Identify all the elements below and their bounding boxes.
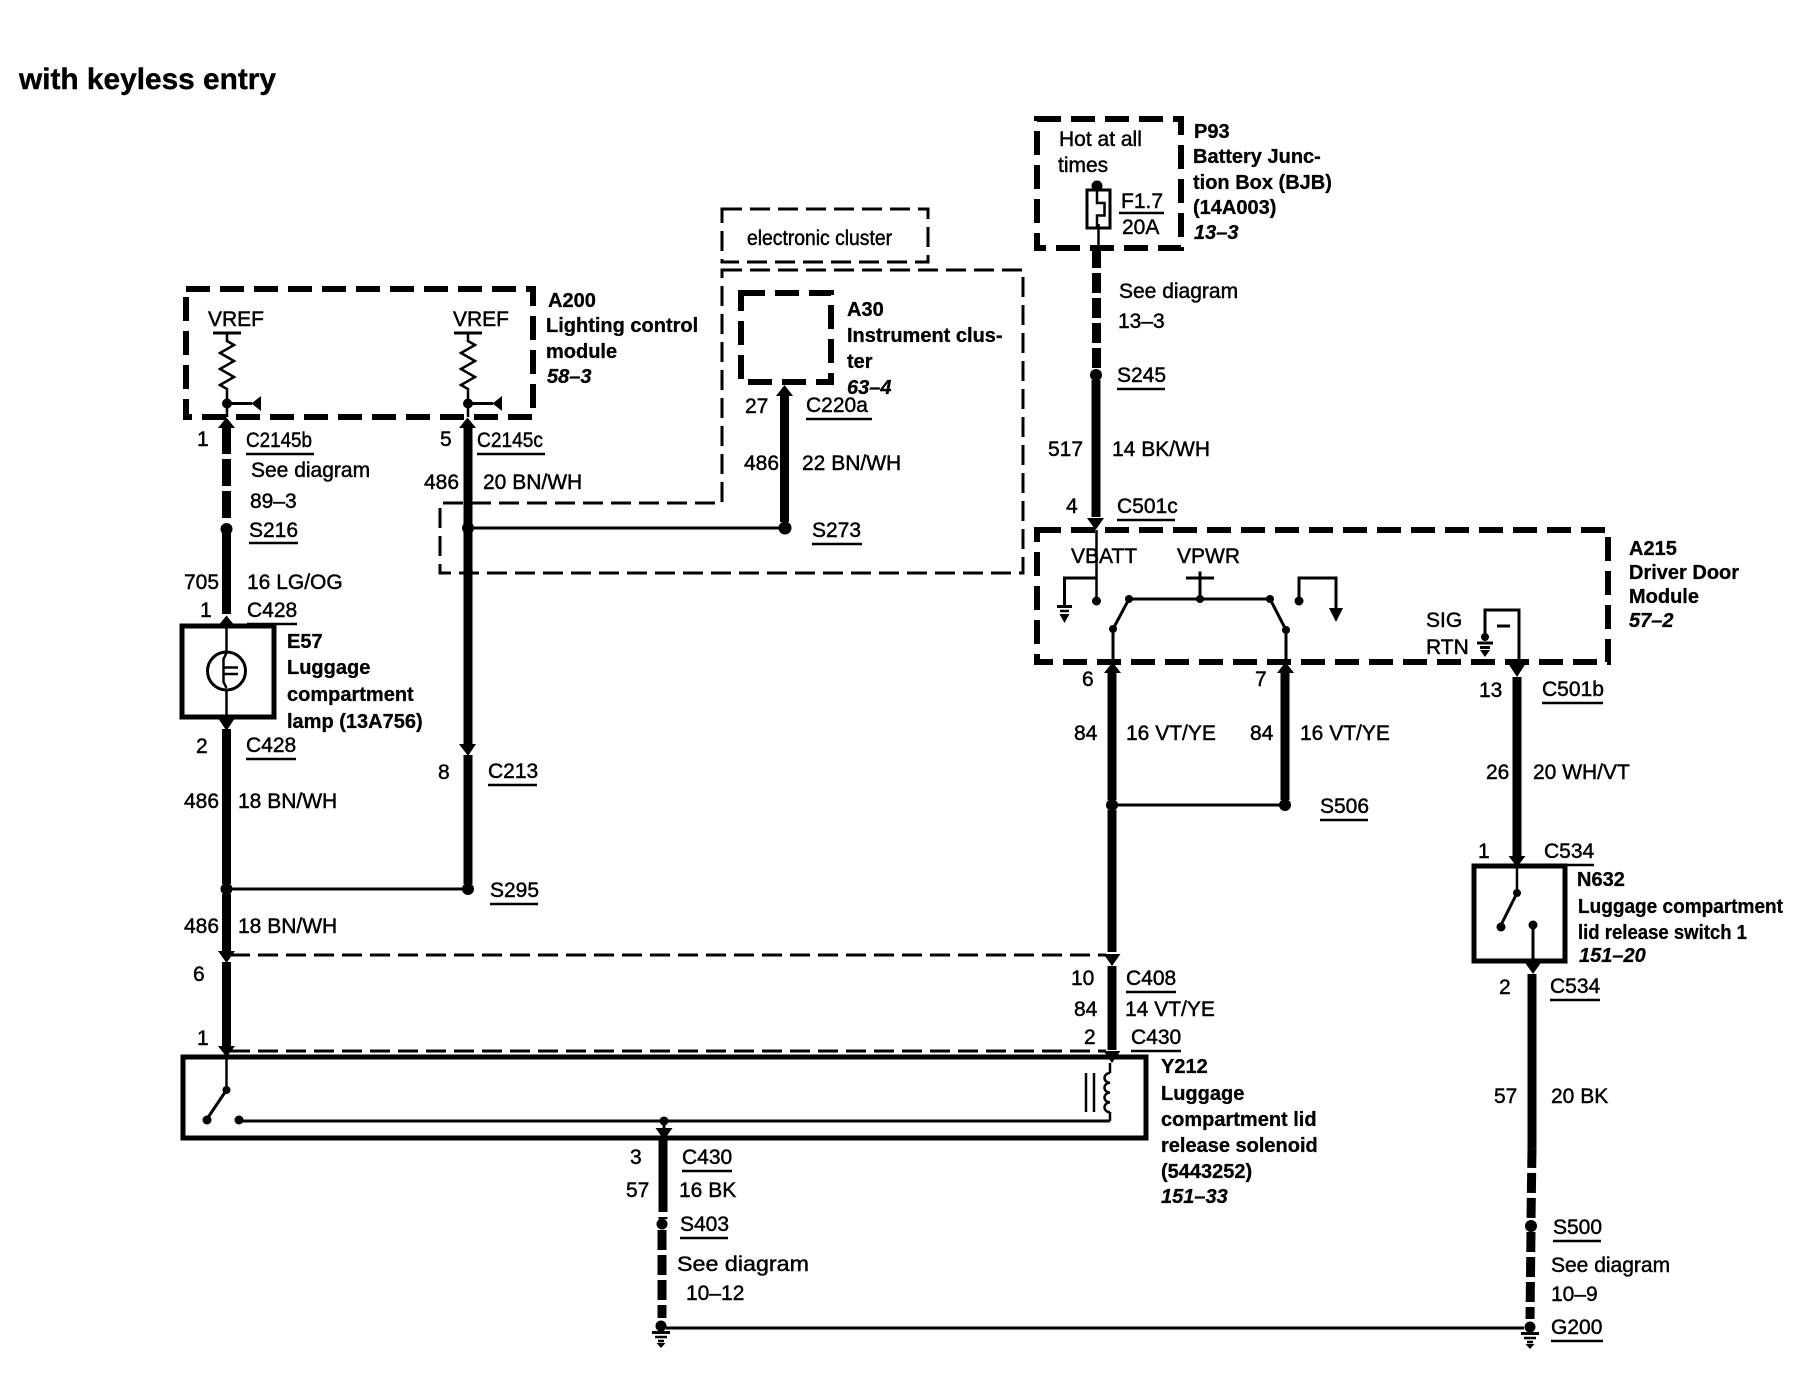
svg-text:C408: C408 <box>1126 967 1176 990</box>
svg-text:7: 7 <box>1255 668 1267 691</box>
svg-text:compartment: compartment <box>287 684 414 706</box>
svg-text:2: 2 <box>196 735 208 758</box>
svg-text:3: 3 <box>630 1146 642 1169</box>
coil Y212 solenoid winding <box>1086 1063 1110 1121</box>
svg-text:705: 705 <box>184 571 219 594</box>
svg-text:E57: E57 <box>287 631 323 653</box>
junction dot S506 left <box>1106 799 1118 811</box>
svg-text:C220a: C220a <box>806 394 868 417</box>
splice S273 <box>779 522 792 535</box>
svg-text:10: 10 <box>1071 967 1094 990</box>
wire A215 internal bus <box>1109 595 1290 660</box>
svg-text:517: 517 <box>1048 438 1083 461</box>
svg-text:151–20: 151–20 <box>1579 945 1646 967</box>
wire C213 to S295 <box>464 755 473 884</box>
svg-text:84: 84 <box>1074 998 1098 1021</box>
symbol SIG RTN <box>1426 609 1519 661</box>
label F1.7 20A <box>1119 190 1164 239</box>
note see diagram 89-3 <box>250 459 370 513</box>
svg-text:10–9: 10–9 <box>1551 1283 1598 1306</box>
svg-text:A200: A200 <box>548 290 596 312</box>
wire 705 16 LG/OG <box>222 533 231 614</box>
resistor R-VREF2 internal pullup <box>454 333 482 399</box>
connector Y212 pin 3 arrow <box>656 1121 673 1140</box>
svg-text:20A: 20A <box>1122 216 1159 239</box>
svg-text:See diagram: See diagram <box>251 459 370 482</box>
svg-text:16 LG/OG: 16 LG/OG <box>247 571 343 594</box>
svg-text:58–3: 58–3 <box>547 366 592 388</box>
svg-text:See diagram: See diagram <box>1551 1254 1670 1277</box>
svg-text:F1.7: F1.7 <box>1121 190 1163 213</box>
wire 486 20 BN/WH <box>464 427 473 744</box>
svg-text:S245: S245 <box>1117 364 1166 387</box>
svg-text:release solenoid: release solenoid <box>1161 1135 1318 1157</box>
svg-text:2: 2 <box>1084 1026 1096 1049</box>
svg-text:compartment lid: compartment lid <box>1161 1109 1317 1131</box>
svg-text:See diagram: See diagram <box>677 1253 809 1276</box>
svg-text:VBATT: VBATT <box>1071 545 1137 568</box>
svg-text:with keyless entry: with keyless entry <box>18 63 276 96</box>
svg-text:VREF: VREF <box>453 308 509 331</box>
symbol VBATT internal tie <box>1057 578 1101 623</box>
connector A215 pin 6 arrow <box>1104 662 1121 673</box>
wire C501c internal <box>1095 530 1098 598</box>
wire 26 20 WH/VT pin 13 <box>1513 677 1522 857</box>
svg-text:S216: S216 <box>249 519 298 542</box>
connector C2145c pin 5 arrow <box>459 418 476 429</box>
boundary instrument cluster assembly (dashed polygon) <box>440 270 1023 573</box>
svg-text:module: module <box>546 341 617 363</box>
svg-text:VREF: VREF <box>208 308 264 331</box>
svg-text:C2145c: C2145c <box>477 429 543 452</box>
connector C534 pin 1 arrow <box>1509 856 1526 867</box>
resistor R-VREF1 internal pullup <box>213 333 241 399</box>
wire 486 18 BN/WH lower <box>222 894 231 952</box>
junction dot Y212 pin 3 <box>660 1117 669 1126</box>
svg-text:57–2: 57–2 <box>1629 610 1674 632</box>
svg-text:S295: S295 <box>490 879 539 902</box>
label A200 <box>546 290 698 388</box>
splice S500 <box>1525 1220 1537 1232</box>
svg-text:C428: C428 <box>247 599 297 622</box>
svg-text:C430: C430 <box>1131 1026 1181 1049</box>
connector line C430 (dashed) <box>230 1050 1106 1053</box>
module A200 Lighting control module (dashed box) <box>186 289 533 417</box>
box electronic cluster (dashed) <box>722 209 928 262</box>
svg-text:ter: ter <box>847 351 873 373</box>
svg-text:22 BN/WH: 22 BN/WH <box>802 452 901 475</box>
svg-text:13–3: 13–3 <box>1118 310 1165 333</box>
svg-text:1: 1 <box>200 599 212 622</box>
label G200 <box>1551 1316 1603 1341</box>
symbol VPWR internal tap <box>1186 572 1214 604</box>
junction dot A200 right <box>463 399 473 409</box>
splice S295 junction dot left <box>221 883 233 895</box>
svg-text:57: 57 <box>1494 1085 1517 1108</box>
svg-text:20 BK: 20 BK <box>1551 1085 1608 1108</box>
connector C213 pin 8 arrow <box>459 744 476 756</box>
svg-text:lid release switch 1: lid release switch 1 <box>1578 922 1747 944</box>
svg-text:Luggage: Luggage <box>1161 1083 1244 1105</box>
svg-text:P93: P93 <box>1194 121 1230 143</box>
svg-text:8: 8 <box>438 761 450 784</box>
svg-text:26: 26 <box>1486 761 1509 784</box>
junction dot on wire 486 <box>462 522 474 534</box>
svg-text:1: 1 <box>1478 840 1490 863</box>
connector C501b label <box>1542 678 1604 703</box>
svg-text:486: 486 <box>744 452 779 475</box>
connector pin 6 arrow at C430 line <box>218 951 235 963</box>
connector C501c pin 4 arrow <box>1087 518 1104 530</box>
connector C428 pin 2 arrow <box>218 718 235 731</box>
connector C2145b pin 1 arrow <box>218 418 235 429</box>
switch Y212 internal <box>203 1057 244 1125</box>
svg-text:13–3: 13–3 <box>1194 222 1239 244</box>
svg-text:Lighting control: Lighting control <box>546 315 698 337</box>
label hot at all times <box>1058 128 1142 177</box>
svg-text:18 BN/WH: 18 BN/WH <box>238 790 337 813</box>
svg-text:See diagram: See diagram <box>1119 280 1238 303</box>
wire 84 14 VT/YE <box>1108 966 1117 1050</box>
junction dot A200 left <box>222 399 232 409</box>
module A30 instrument cluster (inner dashed box) <box>741 293 831 382</box>
svg-text:C534: C534 <box>1550 975 1601 998</box>
svg-text:486: 486 <box>184 790 219 813</box>
svg-text:14 VT/YE: 14 VT/YE <box>1125 998 1215 1021</box>
svg-text:10–12: 10–12 <box>686 1282 744 1305</box>
svg-text:C428: C428 <box>246 734 296 757</box>
svg-text:84: 84 <box>1250 722 1274 745</box>
svg-text:(5443252): (5443252) <box>1161 1161 1252 1183</box>
svg-text:4: 4 <box>1066 495 1078 518</box>
connector C2145b label <box>246 429 314 454</box>
svg-text:84: 84 <box>1074 722 1098 745</box>
svg-text:S273: S273 <box>812 519 861 542</box>
connector line C408 (dashed) <box>230 954 1106 957</box>
connector C428 pin 1 arrow <box>218 616 235 627</box>
svg-text:Battery Junc-: Battery Junc- <box>1193 146 1321 168</box>
svg-text:C430: C430 <box>682 1146 732 1169</box>
svg-text:18 BN/WH: 18 BN/WH <box>238 915 337 938</box>
wire S506 to C408 <box>1108 810 1117 952</box>
note see diagram 10-12 <box>677 1253 809 1305</box>
splice S245 <box>1090 369 1102 381</box>
connector C430 pin 2 arrow <box>1104 1051 1121 1063</box>
svg-text:57: 57 <box>626 1179 649 1202</box>
symbol internal tie right <box>1295 578 1344 622</box>
wire A200 right internal to box edge <box>467 403 470 417</box>
wire Y212 internal horizontal <box>239 1120 1110 1123</box>
wire 57 20 BK <box>1528 974 1537 1148</box>
svg-text:A215: A215 <box>1629 538 1677 560</box>
box P93 battery junction box (dashed) <box>1037 119 1181 248</box>
svg-text:Luggage compartment: Luggage compartment <box>1578 896 1783 918</box>
svg-text:14 BK/WH: 14 BK/WH <box>1112 438 1210 461</box>
internal arrow A200 left <box>231 396 261 411</box>
svg-text:C501b: C501b <box>1542 678 1604 701</box>
wire 486 22 BN/WH <box>780 394 789 522</box>
label Y212 <box>1161 1056 1318 1208</box>
svg-text:(14A003): (14A003) <box>1193 197 1276 219</box>
label N632 <box>1577 869 1783 967</box>
svg-text:Driver Door: Driver Door <box>1629 562 1739 584</box>
svg-text:151–33: 151–33 <box>1161 1186 1228 1208</box>
module A215 driver door module (dashed box) <box>1037 530 1608 662</box>
svg-text:20 WH/VT: 20 WH/VT <box>1533 761 1630 784</box>
svg-text:C501c: C501c <box>1117 495 1178 518</box>
svg-text:C534: C534 <box>1544 840 1595 863</box>
svg-text:5: 5 <box>440 428 452 451</box>
splice S403 <box>657 1219 668 1230</box>
svg-text:Instrument clus-: Instrument clus- <box>847 325 1003 347</box>
svg-text:A30: A30 <box>847 299 884 321</box>
svg-text:13: 13 <box>1479 679 1502 702</box>
svg-text:6: 6 <box>1082 668 1094 691</box>
switch N632 internal <box>1497 866 1538 961</box>
svg-text:electronic cluster: electronic cluster <box>747 227 892 250</box>
connector A215 pin 13 arrow <box>1509 664 1526 677</box>
wire 705 dashed see-diagram segment <box>222 427 231 522</box>
wire S403 to ground dashed see-diagram <box>658 1230 667 1318</box>
svg-text:16 BK: 16 BK <box>679 1179 736 1202</box>
wire 517 14 BK/WH <box>1092 380 1101 517</box>
svg-text:Y212: Y212 <box>1161 1056 1208 1078</box>
wire 84 16 VT/YE pin 6 <box>1108 672 1117 800</box>
fuse F1.7 20A <box>1087 181 1110 249</box>
svg-text:16 VT/YE: 16 VT/YE <box>1300 722 1390 745</box>
svg-text:1: 1 <box>197 428 209 451</box>
svg-text:Module: Module <box>1629 586 1699 608</box>
svg-text:Hot at all: Hot at all <box>1059 128 1142 151</box>
lamp E57 bulb symbol <box>208 626 246 717</box>
svg-text:2: 2 <box>1499 976 1511 999</box>
wire pin6 to pin1 <box>222 962 231 1048</box>
switch N632 luggage compartment lid release switch box <box>1474 866 1565 961</box>
connector pin 1 arrow into Y212 <box>218 1046 235 1057</box>
svg-text:27: 27 <box>745 395 768 418</box>
svg-text:SIG: SIG <box>1426 609 1462 632</box>
internal arrow A200 right <box>472 396 502 411</box>
wire S295 branch horizontal <box>227 888 469 891</box>
label A215 <box>1629 538 1739 632</box>
wire pin 3 to S403 <box>659 1140 668 1192</box>
note see diagram 13-3 <box>1118 280 1238 333</box>
ground G200 <box>1521 1322 1539 1350</box>
label P93 battery junction box <box>1193 121 1332 244</box>
svg-text:VPWR: VPWR <box>1177 545 1240 568</box>
splice S506 <box>1279 799 1291 811</box>
svg-text:1: 1 <box>197 1027 209 1050</box>
svg-text:20 BN/WH: 20 BN/WH <box>483 471 582 494</box>
svg-text:6: 6 <box>193 963 205 986</box>
ground chassis (left) <box>652 1321 670 1349</box>
svg-text:C2145b: C2145b <box>246 429 312 452</box>
wire 84 16 VT/YE pin 7 <box>1281 672 1290 800</box>
svg-text:C213: C213 <box>488 760 538 783</box>
svg-text:S500: S500 <box>1553 1216 1602 1239</box>
wire ground link <box>666 1327 1524 1330</box>
svg-text:486: 486 <box>184 915 219 938</box>
svg-text:89–3: 89–3 <box>250 490 297 513</box>
splice S506 branch wire <box>1112 804 1285 807</box>
solenoid Y212 box <box>183 1057 1146 1138</box>
note see diagram 10-9 <box>1551 1254 1670 1306</box>
wire 486 18 BN/WH upper <box>222 729 231 884</box>
svg-text:times: times <box>1058 154 1108 177</box>
connector A215 pin 7 arrow <box>1277 662 1294 673</box>
wire S273 branch horizontal <box>468 527 785 530</box>
svg-text:lamp (13A756): lamp (13A756) <box>287 711 423 733</box>
wire A200 left internal to box edge <box>226 403 229 417</box>
svg-text:S403: S403 <box>680 1213 729 1236</box>
splice S295 <box>462 883 474 895</box>
wire S500 to G200 dashed see-diagram <box>1530 1232 1531 1319</box>
svg-text:tion Box (BJB): tion Box (BJB) <box>1193 172 1332 194</box>
splice S216 <box>221 523 233 535</box>
svg-text:486: 486 <box>424 471 459 494</box>
svg-text:N632: N632 <box>1577 869 1625 891</box>
svg-text:G200: G200 <box>1551 1316 1602 1339</box>
svg-text:S506: S506 <box>1320 795 1369 818</box>
label E57 <box>287 631 423 733</box>
connector C220a pin 27 arrow <box>776 385 793 396</box>
lamp E57 luggage compartment lamp box <box>182 626 274 717</box>
svg-text:16 VT/YE: 16 VT/YE <box>1126 722 1216 745</box>
svg-text:Luggage: Luggage <box>287 657 370 679</box>
svg-text:RTN: RTN <box>1426 636 1469 659</box>
wire fuse to S245 dashed see-diagram <box>1092 248 1101 370</box>
connector C534 pin 2 arrow <box>1525 962 1542 974</box>
connector C408 pin 10 arrow <box>1104 954 1121 966</box>
label A30 <box>847 299 1003 399</box>
